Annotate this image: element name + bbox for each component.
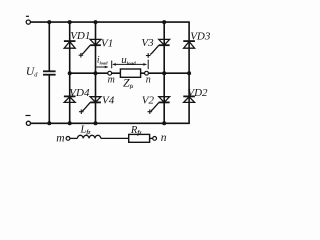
svg-text:n: n — [146, 75, 151, 86]
svg-text:VD4: VD4 — [69, 87, 90, 99]
svg-text:V1: V1 — [101, 38, 113, 50]
svg-text:m: m — [56, 132, 64, 144]
svg-text:VD1: VD1 — [70, 30, 90, 42]
svg-text:VD2: VD2 — [187, 87, 208, 99]
svg-text:VD3: VD3 — [190, 31, 211, 43]
svg-text:V3: V3 — [141, 37, 154, 49]
svg-text:n: n — [161, 132, 167, 144]
svg-text:V2: V2 — [142, 95, 155, 107]
svg-text:m: m — [108, 74, 115, 85]
svg-text:V4: V4 — [102, 95, 115, 107]
